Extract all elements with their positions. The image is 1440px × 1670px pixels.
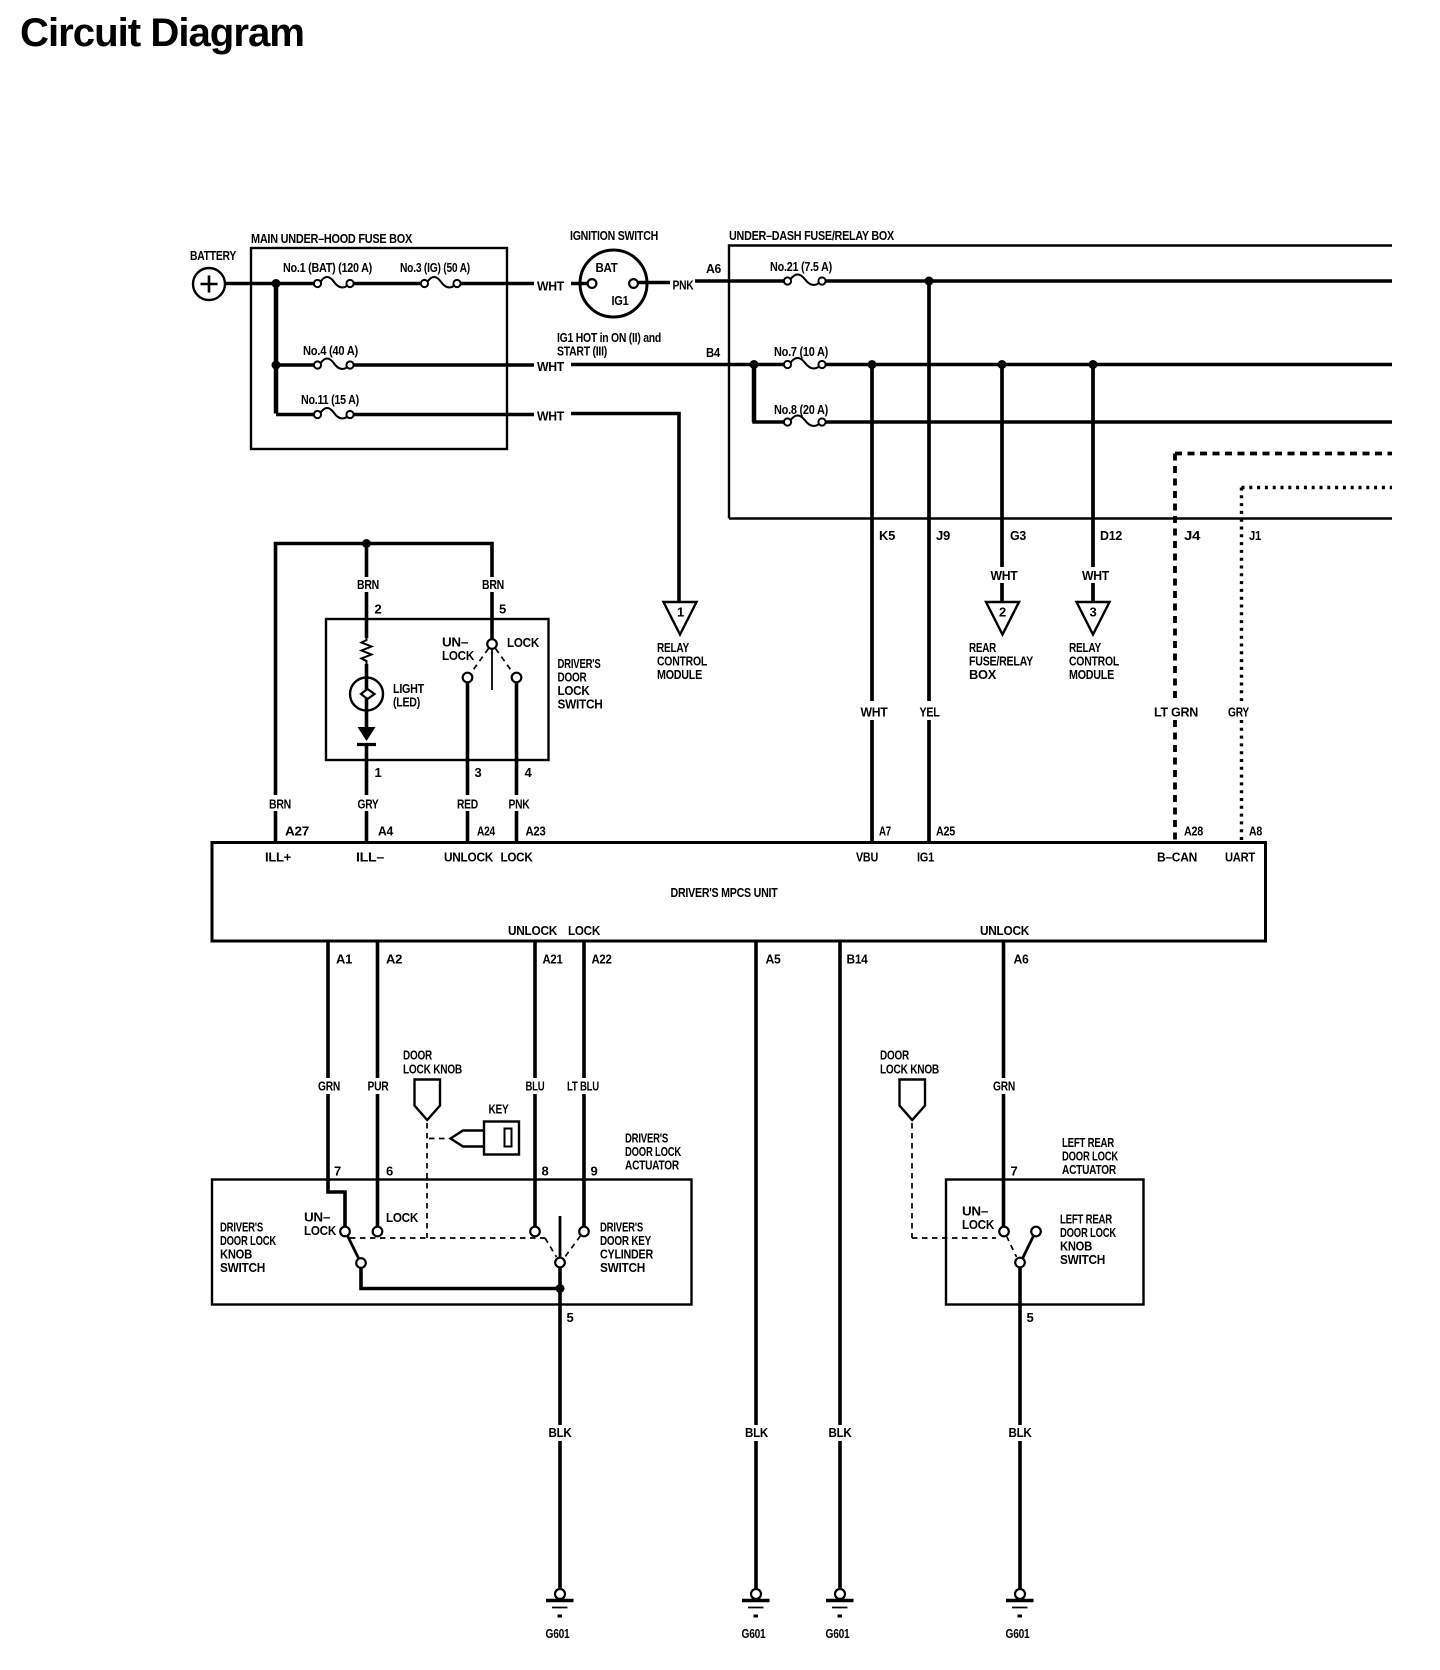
fuse No.4 (40 A) (303, 343, 358, 369)
wire A6 lower (1002, 1094, 1006, 1227)
wire left rear common down (1018, 1267, 1022, 1425)
dashed knob link horizontal right (912, 1237, 996, 1239)
svg-text:UART: UART (1225, 850, 1255, 865)
svg-text:G601: G601 (546, 1626, 570, 1641)
wire A1 upper (326, 941, 330, 1078)
wire J4 dashed horizontal (1175, 452, 1392, 456)
svg-text:No.4 (40 A): No.4 (40 A) (303, 343, 358, 358)
label DRIVER'S DOOR KEY CYLINDER SWITCH (600, 1220, 654, 1276)
ground G601 (4) (1006, 1589, 1034, 1641)
switch S1 lever (491, 649, 493, 690)
svg-text:GRY: GRY (1228, 705, 1249, 720)
wire fuse No.3 to WHT (461, 282, 534, 286)
key symbol (451, 1122, 520, 1155)
svg-text:PUR: PUR (368, 1079, 390, 1094)
svg-text:LOCK: LOCK (568, 923, 601, 938)
key cylinder lt blu contact (579, 1227, 589, 1237)
svg-text:8: 8 (542, 1164, 549, 1179)
svg-text:SWITCH: SWITCH (220, 1260, 265, 1275)
ground G601 (2) (742, 1589, 770, 1641)
svg-text:LOCK: LOCK (442, 648, 475, 663)
svg-text:9: 9 (591, 1164, 598, 1179)
node G3 on row2 (998, 360, 1007, 369)
wire D12 to arrow (1091, 583, 1095, 601)
svg-text:KEY: KEY (489, 1102, 509, 1117)
svg-text:UNLOCK: UNLOCK (508, 923, 558, 938)
svg-text:WHT: WHT (991, 568, 1018, 583)
wire A22 upper (582, 941, 586, 1078)
svg-text:BAT: BAT (596, 260, 618, 275)
svg-text:7: 7 (334, 1164, 341, 1179)
svg-text:GRN: GRN (318, 1079, 340, 1094)
knob switch lever (348, 1236, 359, 1259)
svg-text:A28: A28 (1184, 824, 1203, 839)
svg-text:No.21 (7.5 A): No.21 (7.5 A) (770, 259, 832, 274)
svg-text:A6: A6 (706, 261, 721, 276)
svg-text:No.8 (20 A): No.8 (20 A) (774, 402, 828, 417)
door lock knob symbol left (415, 1080, 441, 1121)
svg-text:ACTUATOR: ACTUATOR (625, 1158, 680, 1173)
svg-text:WHT: WHT (861, 705, 888, 720)
label LEFT REAR DOOR LOCK KNOB SWITCH (1060, 1212, 1117, 1268)
knob switch unlock contact (340, 1227, 350, 1237)
wire PNK to A23 (515, 811, 519, 843)
svg-text:YEL: YEL (920, 705, 940, 720)
svg-text:A8: A8 (1249, 824, 1262, 839)
key cylinder common contact (555, 1258, 565, 1268)
dashed linkage horizontal (350, 1237, 545, 1239)
svg-text:BRN: BRN (269, 797, 291, 812)
wire J1 dotted vertical lower (1240, 720, 1243, 843)
svg-text:A25: A25 (936, 824, 955, 839)
resistor (362, 636, 372, 664)
ground G601 (1) (546, 1589, 574, 1641)
left rear door lock actuator box (946, 1180, 1144, 1305)
wire RED to A24 (466, 811, 470, 843)
fuse No.8 (20 A) (774, 402, 828, 426)
dashed linkage left rear (1007, 1236, 1017, 1257)
wire B4 sub vertical (752, 365, 757, 423)
wire BRN pin2 lower (365, 592, 369, 638)
svg-text:LT BLU: LT BLU (567, 1079, 599, 1094)
wire row1 to page edge (826, 279, 1392, 283)
wire A2 lower (376, 1094, 380, 1227)
svg-text:WHT: WHT (537, 279, 564, 294)
svg-text:G601: G601 (826, 1626, 850, 1641)
svg-text:SWITCH: SWITCH (600, 1260, 645, 1275)
ignition switch (570, 228, 658, 317)
wire A1 lower with jog (328, 1094, 345, 1227)
svg-text:PNK: PNK (509, 797, 531, 812)
wire J1 dotted vertical upper (1240, 488, 1243, 702)
svg-text:LOCK: LOCK (386, 1210, 419, 1225)
dashed key link (429, 1138, 448, 1140)
svg-text:5: 5 (1027, 1310, 1034, 1325)
key cylinder lever (559, 1216, 562, 1258)
wire pin5 down (558, 1289, 562, 1426)
dashed knob link vertical (426, 1123, 428, 1238)
svg-text:J1: J1 (1249, 528, 1261, 543)
fuse No.3 (IG) (50 A) (400, 260, 470, 288)
wire BRN pin5 lower (490, 592, 494, 640)
dashed linkage to key cylinder (545, 1238, 557, 1257)
wire BLK to ground 2 (754, 1441, 758, 1589)
wire BRN left lower (274, 811, 278, 843)
svg-text:BATTERY: BATTERY (190, 248, 236, 263)
svg-text:BLU: BLU (526, 1079, 545, 1094)
svg-text:LOCK: LOCK (507, 635, 540, 650)
svg-text:MAIN UNDER–HOOD FUSE BOX: MAIN UNDER–HOOD FUSE BOX (251, 231, 413, 246)
left rear unlock contact (999, 1227, 1009, 1237)
svg-text:SWITCH: SWITCH (558, 697, 603, 712)
svg-text:A22: A22 (592, 952, 612, 967)
wire A6 upper (1002, 941, 1006, 1078)
wire fuse No.4 to WHT (354, 363, 534, 367)
wire ignition IG1 to PNK (639, 281, 671, 285)
svg-text:GRY: GRY (358, 797, 379, 812)
svg-text:2: 2 (375, 602, 382, 617)
svg-text:WHT: WHT (537, 409, 564, 424)
wire BLK to ground 3 (838, 1441, 842, 1589)
driver's door lock switch box (326, 619, 603, 760)
svg-text:BLK: BLK (745, 1425, 769, 1440)
wire WHT to ignition BAT (571, 282, 588, 286)
wire PNK to fuse No.21 (695, 279, 784, 283)
svg-text:J4: J4 (1184, 528, 1201, 543)
svg-text:A7: A7 (879, 824, 891, 839)
wire BLK to ground 1 (558, 1441, 562, 1589)
svg-text:A27: A27 (285, 824, 309, 839)
svg-text:IG1: IG1 (612, 293, 629, 308)
wire K5 vertical lower (870, 720, 874, 843)
connector arrow 2 rear fuse/relay box (969, 602, 1034, 682)
svg-text:LT GRN: LT GRN (1154, 705, 1198, 720)
svg-text:VBU: VBU (856, 850, 878, 865)
svg-text:UNLOCK: UNLOCK (980, 923, 1030, 938)
wire D12 vertical (1091, 365, 1095, 568)
svg-text:IGNITION SWITCH: IGNITION SWITCH (570, 228, 658, 243)
svg-text:J9: J9 (936, 528, 950, 543)
svg-text:LOCK: LOCK (962, 1217, 995, 1232)
svg-text:IG1: IG1 (917, 850, 934, 865)
svg-text:WHT: WHT (537, 359, 564, 374)
node BRN tap (362, 539, 371, 548)
left rear common contact (1015, 1258, 1025, 1268)
wire G3 vertical (1000, 365, 1004, 568)
svg-text:7: 7 (1011, 1164, 1018, 1179)
connector arrow 1 relay control module (657, 602, 707, 682)
wire row3 to page edge (826, 420, 1392, 424)
node pin5 junction (556, 1284, 565, 1293)
dashed knob link vertical right (911, 1123, 913, 1238)
wire node to fuse No.8 (752, 420, 784, 424)
svg-text:G601: G601 (742, 1626, 766, 1641)
node battery bus row2 (272, 361, 281, 370)
ground G601 (3) (826, 1589, 854, 1641)
left rear lever (1023, 1236, 1034, 1259)
under-dash fuse/relay box (729, 228, 1392, 519)
node D12 on row2 (1089, 360, 1098, 369)
svg-text:RED: RED (457, 797, 478, 812)
switch S1 dashes (471, 649, 489, 674)
wire J9 vertical lower (927, 720, 931, 843)
label LEFT REAR DOOR LOCK ACTUATOR (1062, 1135, 1119, 1177)
svg-text:UNDER–DASH FUSE/RELAY BOX: UNDER–DASH FUSE/RELAY BOX (729, 228, 895, 243)
wire pin4 upper (515, 683, 519, 796)
svg-text:A4: A4 (378, 824, 394, 839)
svg-text:No.11 (15 A): No.11 (15 A) (301, 392, 359, 407)
wire J9 vertical upper (927, 281, 931, 701)
svg-text:GRN: GRN (993, 1079, 1015, 1094)
svg-text:1: 1 (677, 605, 684, 620)
dashed linkage from LT BLU contact (565, 1236, 581, 1258)
svg-text:B4: B4 (706, 345, 721, 360)
wire node to fuse No.7 (754, 363, 784, 367)
svg-text:1: 1 (375, 765, 382, 780)
svg-text:B14: B14 (847, 952, 869, 967)
switch S1 common (487, 639, 497, 649)
svg-text:No.7 (10 A): No.7 (10 A) (774, 344, 828, 359)
wire knob common to junction (361, 1268, 560, 1289)
knob switch common contact (356, 1258, 366, 1268)
wire fuse No.1 to fuse No.3 (354, 282, 420, 286)
wire J4 dashed vertical upper (1173, 454, 1177, 702)
wire BRN bus top (276, 544, 493, 796)
svg-text:BLK: BLK (829, 1425, 853, 1440)
left rear upper contact (1031, 1227, 1041, 1237)
svg-text:A23: A23 (526, 824, 546, 839)
wire G3 to arrow (1000, 583, 1004, 601)
wire BRN pin2 upper (365, 544, 369, 578)
driver's door lock actuator box (212, 1180, 692, 1305)
main under-hood fuse box (251, 231, 507, 449)
svg-text:A1: A1 (336, 952, 352, 967)
fuse No.11 (15 A) (301, 392, 359, 419)
key cylinder blu contact (530, 1227, 540, 1237)
svg-text:BLK: BLK (1009, 1425, 1033, 1440)
wire fuse No.11 to WHT (354, 413, 534, 417)
svg-text:No.1 (BAT) (120 A): No.1 (BAT) (120 A) (283, 260, 372, 275)
svg-text:UNLOCK: UNLOCK (444, 850, 494, 865)
wire LED to diode (365, 711, 369, 729)
svg-text:DOOR: DOOR (880, 1048, 910, 1063)
wire B14 down (838, 941, 842, 1425)
node B4 branch (750, 360, 759, 369)
node J9 on row1 (925, 277, 934, 286)
label DRIVER'S DOOR LOCK KNOB SWITCH (220, 1220, 277, 1276)
wire A5 down (754, 941, 758, 1425)
fuse No.21 (7.5 A) (770, 259, 832, 285)
diode (357, 727, 376, 745)
switch S1 unlock contact (463, 673, 473, 683)
svg-text:ACTUATOR: ACTUATOR (1062, 1162, 1117, 1177)
wire row2 to page edge (826, 363, 1392, 367)
svg-text:A6: A6 (1014, 952, 1029, 967)
wire A22 lower (582, 1094, 586, 1227)
wire J1 dotted horizontal (1242, 486, 1393, 489)
svg-text:MODULE: MODULE (1069, 667, 1115, 682)
svg-text:K5: K5 (879, 528, 895, 543)
svg-text:G601: G601 (1006, 1626, 1030, 1641)
svg-text:ILL+: ILL+ (265, 850, 292, 865)
svg-text:A24: A24 (477, 824, 496, 839)
wire GRY to A4 (365, 811, 369, 843)
svg-text:MODULE: MODULE (657, 667, 703, 682)
node battery bus row1 (272, 279, 281, 288)
wire row2 WHT to node B4 (571, 363, 754, 367)
svg-text:BOX: BOX (969, 667, 997, 682)
knob switch lock contact (373, 1227, 383, 1237)
wire J4 dashed vertical lower (1173, 720, 1177, 843)
label DRIVER'S DOOR LOCK ACTUATOR (625, 1131, 682, 1173)
svg-text:SWITCH: SWITCH (1060, 1252, 1105, 1267)
LED lamp (350, 678, 424, 711)
battery (190, 248, 236, 300)
wire battery to fuse No.1 (225, 282, 314, 286)
wire battery bus vertical (274, 284, 279, 414)
wire A21 upper (533, 941, 537, 1078)
svg-text:BLK: BLK (549, 1425, 573, 1440)
svg-text:DRIVER'S MPCS UNIT: DRIVER'S MPCS UNIT (671, 885, 778, 900)
node K5 on row2 (868, 360, 877, 369)
wire K5 vertical upper (870, 365, 874, 702)
svg-text:A2: A2 (386, 952, 402, 967)
svg-text:BRN: BRN (357, 577, 379, 592)
svg-text:(LED): (LED) (393, 695, 420, 710)
svg-text:5: 5 (567, 1310, 574, 1325)
wire pin3 upper (466, 683, 470, 796)
svg-text:D12: D12 (1100, 528, 1122, 543)
driver's MPCS unit (212, 843, 1266, 942)
svg-text:B–CAN: B–CAN (1157, 850, 1197, 865)
svg-text:LOCK KNOB: LOCK KNOB (880, 1062, 939, 1077)
connector arrow 3 relay control module (1069, 602, 1119, 682)
svg-text:G3: G3 (1010, 528, 1026, 543)
svg-text:START (III): START (III) (557, 344, 607, 359)
svg-text:BRN: BRN (482, 577, 504, 592)
svg-text:LOCK: LOCK (304, 1223, 337, 1238)
wire resistor to LED (365, 664, 369, 678)
svg-text:A21: A21 (543, 952, 563, 967)
fuse No.7 (10 A) (774, 344, 828, 369)
wire BLK to ground 4 (1018, 1441, 1022, 1589)
svg-text:LOCK: LOCK (501, 850, 534, 865)
svg-text:3: 3 (1090, 605, 1097, 620)
svg-text:PNK: PNK (673, 278, 695, 293)
svg-text:Circuit Diagram: Circuit Diagram (20, 11, 304, 55)
wire No.11 row (276, 413, 314, 417)
svg-text:A5: A5 (766, 952, 781, 967)
svg-text:4: 4 (525, 765, 533, 780)
fuse No.1 (BAT) (120 A) (283, 260, 372, 288)
svg-text:2: 2 (999, 605, 1006, 620)
svg-text:WHT: WHT (1082, 568, 1109, 583)
svg-text:3: 3 (475, 765, 482, 780)
wire diode to pin 1 (365, 745, 369, 796)
switch S1 lock contact (512, 673, 522, 683)
wire WHT to relay control module arrow (571, 414, 679, 602)
svg-text:ILL–: ILL– (356, 850, 384, 865)
svg-text:6: 6 (386, 1164, 393, 1179)
svg-text:5: 5 (499, 602, 506, 617)
wire key cylinder common down (558, 1267, 562, 1289)
svg-text:LOCK KNOB: LOCK KNOB (403, 1062, 462, 1077)
wire A2 upper (376, 941, 380, 1078)
wire node to fuse No.4 (276, 363, 314, 367)
svg-text:No.3 (IG) (50 A): No.3 (IG) (50 A) (400, 260, 470, 275)
door lock knob symbol right (900, 1080, 926, 1121)
svg-text:DOOR: DOOR (403, 1048, 433, 1063)
wire A21 lower (533, 1094, 537, 1227)
